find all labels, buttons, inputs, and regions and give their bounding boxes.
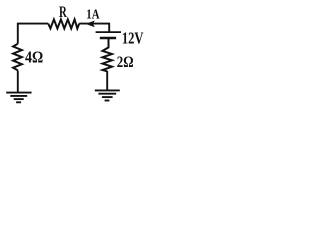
ground left <box>6 93 31 103</box>
svg-text:1A: 1A <box>86 7 99 22</box>
current arrow 1A <box>86 21 95 28</box>
svg-text:4Ω: 4Ω <box>25 47 43 66</box>
wire resistor to ground left <box>17 71 19 93</box>
svg-text:2Ω: 2Ω <box>117 52 134 71</box>
resistor R3 zigzag 4ohm <box>13 44 22 71</box>
svg-text:12V: 12V <box>122 29 144 48</box>
battery V1 plate long <box>96 31 121 33</box>
resistor R1 zigzag <box>48 19 79 28</box>
wire top horizontal right segment <box>79 24 109 32</box>
battery V1 plate short <box>100 37 116 40</box>
ground right <box>95 90 120 100</box>
wire resistor to ground right <box>106 71 108 90</box>
wire top horizontal left segment <box>18 24 49 44</box>
resistor R2 zigzag 2ohm <box>103 38 113 71</box>
svg-text:R: R <box>59 4 67 21</box>
